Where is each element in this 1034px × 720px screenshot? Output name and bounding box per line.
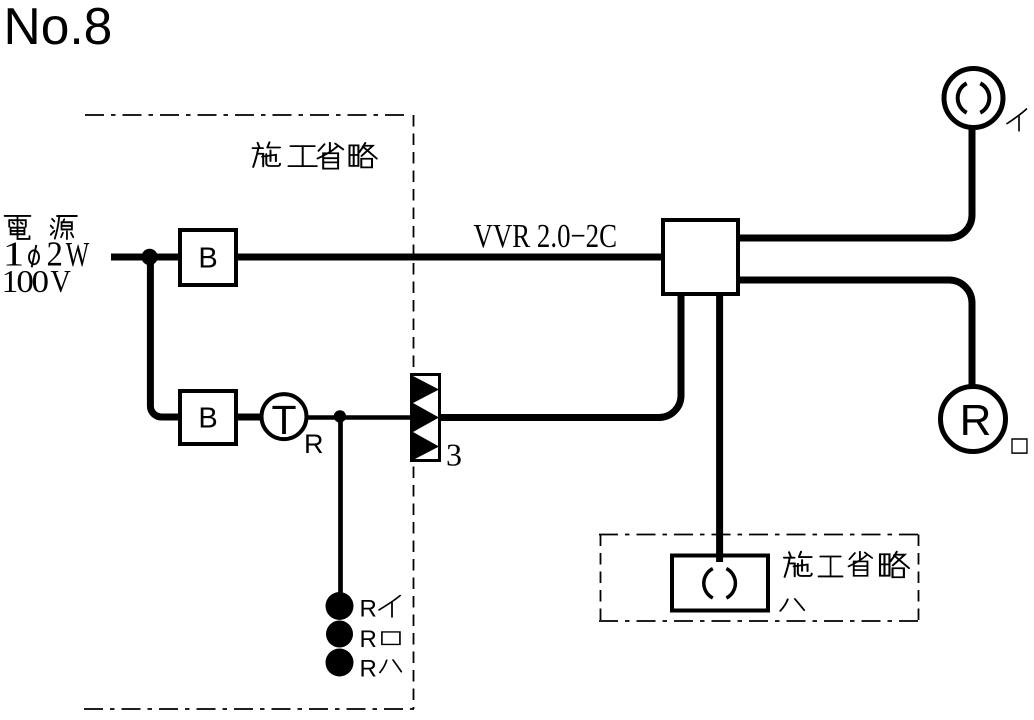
wire: relay group to junction box [441, 296, 681, 418]
lamp i: round ceiling receptacle [944, 69, 1003, 128]
node: source junction dot [141, 249, 157, 265]
label: 1phi2W [3, 235, 90, 274]
boundary: vertical dashed edge of left omitted box [413, 115, 415, 709]
svg-text:R: R [304, 429, 324, 459]
label: ha (katakana) below bottom omitted text [780, 599, 804, 611]
label 3 (relay count) [446, 437, 462, 473]
label R subscript of transformer [304, 429, 324, 459]
title No.8 [4, 0, 113, 55]
svg-text:V: V [51, 265, 72, 300]
label R-i [360, 596, 401, 623]
svg-text:B: B [198, 402, 217, 434]
wire: junction box to lamp i (top right) [740, 127, 972, 238]
breaker B2 [180, 391, 236, 444]
label ro (katakana) for lamp [1012, 439, 1027, 453]
relay group (3 remote-control relays) [412, 375, 440, 461]
boundary: top-left construction-omitted box, top dash-dot edge [85, 114, 409, 116]
lamp ha: square ceiling receptacle (construction omitted) [672, 553, 768, 611]
lamp ro: lamp with R (remote-control relay lamp) [941, 387, 1006, 452]
label: construction omitted (top box) 施工省略 [253, 142, 377, 168]
svg-text:No.8: No.8 [4, 0, 113, 55]
boundary: bottom-right omitted box [599, 535, 920, 622]
wire: branch down from source node to breaker B2 [150, 255, 180, 417]
junction box [663, 220, 738, 294]
relay lead dots R-i R-ro R-ha [326, 592, 354, 677]
wire: B2 to transformer T [238, 414, 261, 421]
transformer T (remote-control transformer) [262, 394, 307, 443]
wire: control drop from node to relay leads [338, 417, 343, 595]
label i (katakana) for lamp [1007, 109, 1027, 131]
label: source text 電源 [5, 216, 77, 239]
svg-text:T: T [271, 397, 296, 443]
label R-ha [360, 656, 402, 683]
breaker B1 [180, 230, 236, 285]
svg-text:B: B [198, 242, 217, 274]
svg-text:3: 3 [446, 437, 462, 473]
svg-text:R: R [360, 656, 377, 683]
svg-text:R: R [360, 626, 377, 653]
label: 100V [2, 264, 72, 300]
boundary: bottom dash-dot edge of left omitted box [84, 708, 414, 710]
wire: junction box to lamp ro (R) [740, 280, 972, 386]
wire: transformer T to relay group (thin control wire) [306, 415, 411, 420]
svg-text:0: 0 [31, 265, 49, 300]
label: construction omitted (bottom box) 施工省略 [784, 552, 909, 578]
wire: power feed horizontal to junction box [111, 254, 663, 261]
label: cable VVR 2.0-2C [474, 218, 618, 255]
svg-text:VVR 2.0−2C: VVR 2.0−2C [474, 218, 618, 255]
node: control junction dot after T [334, 410, 346, 422]
svg-text:R: R [960, 396, 992, 445]
svg-text:R: R [360, 596, 377, 623]
wire: junction box down to ceiling light ha [716, 296, 723, 554]
label R-ro [360, 626, 400, 653]
